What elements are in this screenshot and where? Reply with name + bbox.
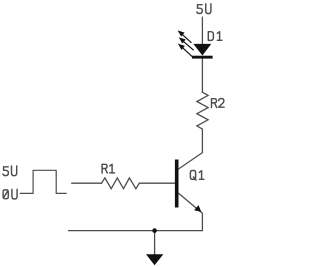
label R2 — [212, 99, 217, 108]
wire R1 to Q1 base — [139, 182, 175, 184]
LED D1 light arrow 3 shaft — [183, 48, 193, 57]
ground symbol — [146, 254, 163, 265]
transistor Q1 emitter arrowhead — [194, 205, 201, 212]
wire Q1 emitter to ground rail — [179, 193, 203, 230]
net label 5V (top supply) — [197, 5, 202, 14]
LED D1 cathode bar — [192, 56, 213, 59]
label Q1 — [190, 171, 196, 181]
label R1 — [102, 164, 107, 173]
LED D1 light arrow 2 head — [180, 38, 185, 42]
wire D1 cathode to R2 — [201, 59, 203, 92]
input pulse waveform — [20, 170, 66, 193]
LED D1 triangle — [193, 44, 211, 56]
resistor R2 — [197, 92, 208, 129]
transistor Q1 base bar — [175, 160, 179, 208]
ground rail wire — [69, 230, 203, 232]
LED D1 light arrow 1 shaft — [182, 34, 191, 42]
ground stub wire — [154, 231, 156, 255]
LED D1 light arrow 1 head — [179, 31, 184, 35]
LED D1 light arrow 3 head — [179, 45, 184, 49]
wire input to R1 — [72, 182, 102, 184]
LED D1 light arrow 2 shaft — [183, 41, 193, 50]
label 5V (pulse high level) — [3, 167, 8, 176]
resistor R1 — [102, 178, 140, 189]
label D1 — [208, 32, 213, 41]
label 0V (pulse low level) — [3, 190, 8, 199]
junction dot — [152, 228, 157, 233]
wire R2 to Q1 collector — [179, 129, 203, 169]
wire 5V supply to D1 anode — [201, 17, 203, 44]
